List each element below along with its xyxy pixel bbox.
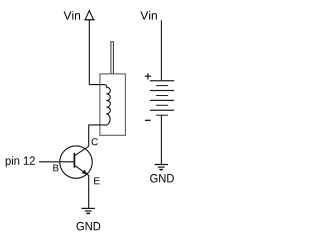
label B (base): [53, 165, 58, 172]
transistor body circle: [60, 146, 92, 178]
battery plates: [150, 81, 174, 116]
transistor base bar: [73, 153, 75, 168]
wire battery to ground (right): [160, 115, 162, 164]
relay coil with leads: [89, 85, 111, 147]
label E (emitter): [94, 177, 99, 184]
ground symbol (right): [155, 165, 168, 170]
wire Vin right down to battery: [160, 20, 162, 80]
label - (battery negative): [145, 119, 151, 121]
label pin 12: [6, 156, 35, 167]
relay contact pin (top): [111, 42, 114, 74]
relay body rectangle: [100, 74, 126, 135]
emitter arrowhead: [82, 170, 88, 175]
collector lead (diagonal): [75, 146, 89, 155]
wire from Vin triangle down: [88, 20, 90, 85]
label Vin (left): [64, 11, 81, 20]
emitter line with arrow: [75, 165, 89, 208]
label GND (left): [77, 222, 101, 231]
label + (battery positive): [145, 73, 151, 79]
base wire from pin 12: [39, 161, 75, 163]
power symbol triangle (Vin left): [84, 11, 94, 20]
label GND (right): [150, 174, 174, 183]
ground symbol (left): [82, 208, 95, 213]
label Vin (right): [140, 11, 157, 20]
label C (collector): [92, 138, 98, 145]
